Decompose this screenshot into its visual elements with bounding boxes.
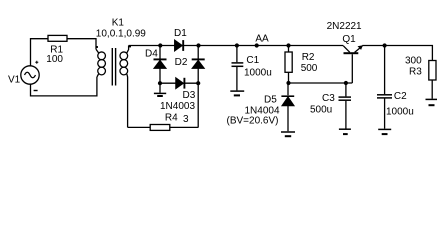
junction C3 tap — [344, 81, 348, 85]
V1 minus marker — [34, 90, 38, 92]
junction R2 bottom / D5 — [286, 81, 290, 85]
node AA junction — [255, 43, 259, 47]
junction bridge bottom right — [196, 81, 200, 85]
capacitor C3 — [339, 83, 352, 129]
svg-text:C1: C1 — [246, 55, 259, 66]
svg-text:D3: D3 — [183, 90, 196, 101]
svg-text:D2: D2 — [175, 57, 188, 68]
zener diode D5 — [281, 83, 294, 131]
resistor R2 — [285, 46, 292, 84]
svg-text:500: 500 — [301, 63, 318, 74]
diode D4 — [154, 59, 167, 68]
svg-text:R4: R4 — [165, 113, 178, 124]
svg-text:R2: R2 — [302, 52, 315, 63]
transformer primary phase dot — [96, 46, 98, 48]
svg-text:R3: R3 — [409, 66, 422, 77]
source V1 — [21, 66, 39, 84]
wire secondary top to node AA rail (collector rail) — [129, 45, 344, 47]
svg-text:1000u: 1000u — [386, 106, 414, 117]
svg-text:D5: D5 — [264, 95, 277, 106]
transformer K1 primary coil — [96, 49, 105, 77]
diode D1 — [175, 40, 184, 51]
wire bridge right leg down to R4 return — [128, 46, 199, 128]
diode D2 — [192, 59, 205, 68]
ground at C3 — [339, 129, 351, 134]
wire V1 bottom to primary bottom — [31, 77, 97, 96]
diode D3 — [176, 78, 185, 89]
svg-text:Q1: Q1 — [342, 34, 356, 45]
junction bridge bottom left — [158, 81, 162, 85]
transistor Q1 — [343, 45, 363, 83]
junction bridge top right — [196, 43, 200, 47]
svg-text:1000u: 1000u — [244, 67, 272, 78]
svg-text:100: 100 — [46, 54, 63, 65]
transformer K1 secondary coil — [120, 46, 129, 128]
svg-text:C2: C2 — [394, 91, 407, 102]
resistor R1 — [48, 35, 67, 41]
svg-text:V1: V1 — [8, 75, 21, 86]
svg-text:AA: AA — [255, 33, 269, 44]
svg-text:3: 3 — [183, 114, 189, 125]
junction bridge top left — [158, 43, 162, 47]
junction C1 tap — [235, 43, 239, 47]
svg-text:500u: 500u — [310, 104, 332, 115]
transformer secondary phase dot — [129, 45, 131, 47]
wire Q1 emitter rail to R3 — [362, 46, 432, 61]
junction C2 tap — [383, 43, 387, 47]
capacitor C2 — [377, 46, 392, 129]
capacitor C1 — [232, 46, 244, 91]
svg-text:1N4003: 1N4003 — [160, 101, 195, 112]
wire bridge left leg — [159, 46, 161, 84]
svg-text:D4: D4 — [145, 48, 158, 59]
wire R1 to transformer primary top — [67, 39, 96, 50]
wire V1 top to R1 — [31, 39, 49, 66]
ground at C1 — [230, 91, 244, 95]
ground at C2 — [378, 129, 391, 134]
svg-text:10,0.1,0.99: 10,0.1,0.99 — [96, 28, 146, 39]
junction R2 top — [286, 43, 290, 47]
svg-text:C3: C3 — [322, 93, 335, 104]
resistor R4 — [150, 125, 170, 131]
svg-text:2N2221: 2N2221 — [327, 21, 362, 32]
resistor R3 — [429, 61, 436, 99]
ground at bridge left leg — [154, 83, 166, 96]
transformer K1 core — [112, 48, 115, 86]
svg-text:(BV=20.6V): (BV=20.6V) — [227, 115, 279, 126]
ground at D5 — [281, 132, 295, 136]
svg-text:K1: K1 — [112, 17, 125, 28]
svg-text:300: 300 — [405, 55, 422, 66]
svg-text:D1: D1 — [174, 28, 187, 39]
ground at R3 — [426, 99, 437, 105]
wire bridge bottom with D3 — [160, 82, 198, 84]
V1 plus marker — [35, 61, 38, 64]
wire R2 bottom to Q1 base — [289, 82, 353, 84]
